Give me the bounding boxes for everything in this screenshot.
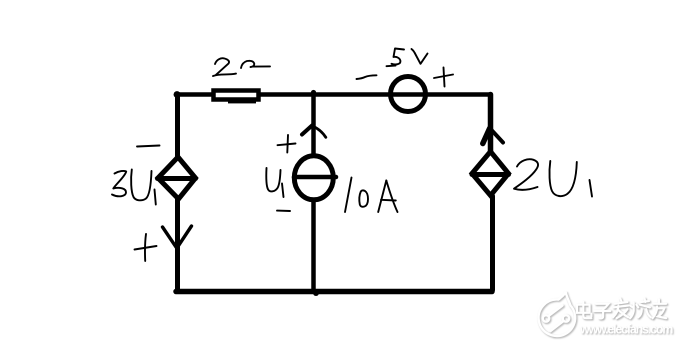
- svg-text:www.elecfans.com: www.elecfans.com: [579, 323, 673, 337]
